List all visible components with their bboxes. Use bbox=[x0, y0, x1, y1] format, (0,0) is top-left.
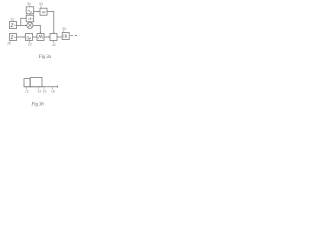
block I bbox=[62, 33, 69, 40]
glyph inside block A bbox=[28, 10, 32, 12]
wire A to B with arrowhead bbox=[34, 11, 40, 13]
label 34 above block B bbox=[39, 2, 43, 6]
Fig 3b baseline bbox=[24, 86, 58, 88]
leader label d bbox=[51, 87, 53, 89]
leader from label 34 to block B bbox=[40, 6, 42, 9]
wire H to I bbox=[57, 36, 62, 38]
wire multiplier right then down into block G top bbox=[33, 25, 40, 33]
leader from label 20 to block E bbox=[9, 41, 12, 42]
Fig 3b caption bbox=[30, 101, 44, 107]
wire F to G with arrowhead bbox=[33, 36, 37, 38]
branch wire up from D output into C left edge bbox=[21, 18, 26, 25]
wire G to H with arrowhead bbox=[44, 36, 49, 38]
dashed output wire from I bbox=[70, 34, 77, 36]
svg-text:50: 50 bbox=[62, 27, 66, 31]
Fig 3b right box bbox=[30, 78, 42, 87]
leader from label 22 to block F bbox=[28, 41, 30, 43]
svg-text:34: 34 bbox=[39, 2, 43, 6]
Fig 3b left box bbox=[24, 79, 30, 87]
label c under baseline bbox=[43, 89, 47, 93]
svg-text:42: 42 bbox=[52, 43, 56, 47]
glyph inside block I bbox=[64, 35, 67, 38]
svg-text:12: 12 bbox=[25, 89, 29, 93]
leader from label 10 to block D bbox=[12, 20, 14, 23]
block A (oscillator) bbox=[26, 7, 34, 14]
block F bbox=[26, 34, 33, 41]
svg-text:Fig 3b: Fig 3b bbox=[30, 101, 44, 107]
svg-text:14: 14 bbox=[37, 89, 41, 93]
block B bbox=[40, 8, 47, 15]
label d under baseline right bbox=[51, 89, 55, 93]
Fig 3a caption bbox=[38, 54, 52, 60]
label a under left box bbox=[25, 89, 29, 93]
wire E to F with arrowhead bbox=[17, 36, 25, 38]
label b under right box bbox=[37, 89, 41, 93]
leader from label 30 to block A bbox=[28, 5, 30, 6]
svg-text:20: 20 bbox=[7, 42, 11, 46]
stub below H and label 42 bbox=[53, 41, 55, 43]
svg-text:16: 16 bbox=[43, 89, 47, 93]
svg-text:10: 10 bbox=[10, 17, 14, 21]
block H (empty) bbox=[50, 34, 57, 41]
label 30 above block A bbox=[27, 2, 31, 6]
multiplier circle with X bbox=[27, 22, 33, 28]
glyph inside block B bbox=[42, 11, 45, 13]
tick at end of baseline bbox=[56, 85, 58, 88]
label 50 above block I bbox=[62, 27, 66, 31]
glyph inside block C bbox=[28, 18, 33, 20]
block C bbox=[26, 15, 34, 22]
leader label c bbox=[43, 87, 45, 89]
leader label a bbox=[25, 87, 27, 89]
label 10 above block D bbox=[10, 17, 14, 21]
block D bbox=[10, 22, 17, 29]
label 20 below-left of block E bbox=[7, 42, 11, 46]
arrowhead into H top bbox=[53, 32, 54, 33]
svg-text:18: 18 bbox=[51, 89, 55, 93]
wire D to multiplier with arrowhead bbox=[17, 24, 27, 26]
block E bbox=[10, 34, 17, 41]
stub A down to C bbox=[29, 14, 31, 15]
svg-text:Fig 3a: Fig 3a bbox=[38, 54, 52, 60]
svg-text:22: 22 bbox=[28, 43, 32, 47]
leader label b bbox=[38, 87, 40, 89]
leader from label 50 to block I bbox=[63, 31, 65, 33]
glyph inside block D bbox=[11, 24, 16, 27]
wire B wrap-around right and down to block H bbox=[47, 12, 54, 34]
block G bbox=[37, 34, 44, 41]
stub C down to multiplier bbox=[29, 21, 31, 24]
label 22 below block F bbox=[28, 43, 32, 47]
glyph inside block F bbox=[27, 37, 31, 40]
glyph inside block E bbox=[11, 36, 16, 39]
glyph inside block G bbox=[38, 35, 42, 38]
